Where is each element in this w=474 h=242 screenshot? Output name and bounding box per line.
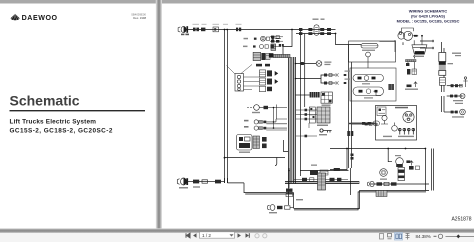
- label y split a: [345, 71, 350, 72]
- connector strip hatched: [269, 53, 290, 57]
- y split upper comps: [324, 73, 346, 77]
- bottom fuse right2: [337, 178, 341, 182]
- aux box pair: [262, 137, 267, 148]
- svg-text:Dec. 1998: Dec. 1998: [133, 16, 146, 20]
- toolbar continuous facing icon: [406, 233, 410, 240]
- distributor top: [380, 28, 423, 52]
- wire starter row: [447, 85, 462, 87]
- wire main top bus: [186, 29, 336, 31]
- engine feed fuses: [362, 121, 379, 126]
- wire bundle bottom band: [285, 181, 360, 184]
- toolbar last page button: [246, 233, 250, 238]
- label mid circle: [324, 62, 331, 66]
- wire key switch feed: [352, 122, 376, 124]
- left feed fuse row1: [270, 36, 283, 39]
- key symbol: [320, 129, 332, 133]
- wire left bus line a: [224, 30, 226, 184]
- connector hatched mid: [253, 136, 260, 149]
- right schematic page: [162, 4, 474, 230]
- bottom chain comps: [368, 181, 397, 186]
- amp fuse row2 right: [320, 32, 331, 35]
- wire bottom chain: [369, 183, 429, 185]
- lamp row 2: [254, 119, 287, 124]
- step box lower: [334, 168, 340, 171]
- toolbar zoom slider track: [446, 235, 474, 238]
- toolbar next page button: [238, 233, 241, 238]
- label relay cluster: [322, 105, 331, 106]
- row4 dashes: [256, 64, 270, 67]
- horn switch row2: [253, 45, 281, 49]
- toolbar zoom reset circle: [438, 234, 442, 238]
- page bottom shadow: [0, 228, 474, 233]
- left bottom chain: [177, 178, 224, 185]
- toolbar rotate left disabled: [255, 234, 259, 238]
- toolbar zoom out dot: [434, 236, 437, 237]
- wire step left drop: [283, 30, 292, 55]
- label spark plug row: [398, 136, 414, 137]
- wire right stub upper: [420, 40, 434, 42]
- svg-text:1 / 2: 1 / 2: [202, 233, 211, 238]
- toolbar prev page button: [193, 233, 196, 238]
- page separator gap: [156, 0, 162, 229]
- flasher relay box: [237, 135, 253, 151]
- wire rear lamp column: [442, 96, 445, 112]
- label backup lamp: [452, 116, 464, 117]
- wire battery drop: [442, 42, 445, 53]
- battery: [439, 53, 446, 76]
- ignition switch hatched: [317, 107, 330, 123]
- label gauge: [380, 179, 387, 180]
- wire central bus line 1: [288, 57, 290, 205]
- wire central bus line 3: [293, 57, 295, 183]
- wire bottom band lines: [285, 182, 359, 184]
- option legend box: [377, 107, 386, 116]
- fuel pump box: [349, 41, 396, 68]
- labels above top fuses: [193, 24, 242, 25]
- svg-text:Lift Trucks Electric System: Lift Trucks Electric System: [10, 119, 97, 126]
- sender unit box: [350, 68, 396, 101]
- junction dots lamp rows: [273, 107, 275, 129]
- connector hatched pair bottom: [376, 191, 387, 197]
- svg-text:84.38%: 84.38%: [416, 234, 431, 239]
- alternator: [403, 111, 414, 122]
- label flasher box: [239, 152, 250, 153]
- right mid branch comps: [365, 123, 377, 127]
- svg-text:DAEWOO: DAEWOO: [22, 14, 58, 22]
- sender small parts: [409, 166, 420, 170]
- label right top: [452, 53, 461, 57]
- wire central bus line 4: [295, 57, 297, 184]
- bottom wires cross: [294, 179, 348, 181]
- fuse F3: [236, 28, 241, 32]
- mid circle component: [301, 61, 322, 67]
- wire right bus lower: [350, 168, 352, 195]
- fuel gauge meter: [380, 169, 388, 177]
- starter circle: [381, 115, 388, 124]
- spark arrow comp: [407, 82, 418, 87]
- fuse F1: [193, 28, 199, 32]
- label lamp rows: [244, 120, 249, 128]
- label bottom-left chain: [269, 212, 277, 213]
- coil hatched bar: [406, 60, 417, 62]
- battery lower block: [440, 78, 446, 86]
- relay K1 hatched: [271, 44, 276, 50]
- fuse F2: [201, 28, 205, 32]
- wire horn to bus: [268, 105, 287, 129]
- label bus bottom: [296, 199, 303, 200]
- toolbar rotate right disabled: [263, 234, 267, 238]
- wire y split stem: [296, 78, 322, 80]
- label fuel pump: [362, 50, 375, 51]
- wire flasher horizontal: [225, 157, 286, 159]
- starter row comps: [451, 84, 463, 87]
- horn switch row1: [254, 36, 281, 41]
- label gnd area: [311, 165, 317, 166]
- amp fuse row1 left: [299, 28, 312, 31]
- wire bottom left chain riser: [225, 140, 289, 183]
- wire buzzer drop: [388, 149, 392, 162]
- wires fan from CN2: [227, 65, 260, 90]
- ignition coil: [412, 45, 427, 54]
- label engine parts: [395, 107, 408, 109]
- key switch boxes: [296, 107, 317, 137]
- relay bank C: [260, 86, 273, 92]
- bottom fuse left: [302, 178, 307, 182]
- label chain bottom: [193, 186, 200, 187]
- svg-text:Schematic: Schematic: [10, 93, 80, 109]
- rear lamp row comps: [450, 94, 465, 99]
- left cover page: [0, 4, 157, 230]
- buzzer: [396, 158, 414, 167]
- wire backup lamp row: [444, 111, 457, 113]
- toolbar facing icon active: [395, 233, 403, 241]
- wire y split lower: [321, 79, 336, 84]
- relay cluster mid: [310, 92, 333, 103]
- wire right mid branch: [352, 123, 379, 125]
- sender box edge connector: [389, 84, 395, 90]
- wire ground bus: [300, 170, 349, 172]
- wire right trunk line: [300, 30, 302, 177]
- spark plugs row: [399, 128, 415, 135]
- wire step lower right: [330, 149, 347, 170]
- horn H1: [247, 105, 268, 111]
- spark plug comps right: [406, 63, 416, 75]
- label spark cluster: [405, 89, 418, 90]
- bottom fuse left2: [310, 178, 314, 182]
- wire right stub lower: [420, 47, 434, 49]
- bottom toolbar: [0, 233, 474, 242]
- wire rear lamp row: [447, 95, 462, 97]
- label horn rows left: [243, 38, 248, 47]
- backup lamp: [451, 109, 466, 115]
- wire battery lower: [442, 75, 445, 92]
- wire bottom right verticals: [426, 149, 434, 191]
- svg-text:GC15S-2, GC18S-2, GC20SC-2: GC15S-2, GC18S-2, GC20SC-2: [10, 128, 113, 135]
- ammeter connector capsule: [314, 25, 319, 36]
- label distributor: [383, 136, 392, 137]
- label CN1: [181, 34, 189, 36]
- right bus fuse stack lower: [351, 154, 354, 160]
- wire lower return run: [244, 183, 294, 209]
- svg-text:MODEL : GC15S, GC18S, GC20SC: MODEL : GC15S, GC18S, GC20SC: [397, 19, 460, 24]
- engine parts box: [376, 106, 417, 141]
- relay bank B: [260, 78, 279, 85]
- label bottom connector: [179, 187, 188, 189]
- label ammeter: [313, 19, 319, 20]
- wire amp drop right: [336, 34, 415, 59]
- amp fuse row2 left: [299, 32, 312, 35]
- daewoo logo shell icon: [11, 14, 20, 20]
- label y split b: [345, 79, 350, 80]
- toolbar first page button: [186, 233, 190, 238]
- y split lower comps: [324, 81, 346, 85]
- left feed fuse row2: [270, 40, 283, 43]
- wire major horizontal: [330, 148, 426, 150]
- fuel sender cylinder: [398, 168, 405, 181]
- wire central bus line 2: [290, 57, 292, 183]
- toolbar page field dropdown: [230, 234, 234, 236]
- wire ground hook: [275, 158, 277, 166]
- connector block CN2: [235, 74, 244, 92]
- fusible link box: [213, 27, 219, 32]
- svg-text:A251878: A251878: [451, 217, 471, 223]
- wire bundle central bus band: [288, 57, 296, 183]
- central bottom connector bar: [318, 173, 326, 190]
- fuse stack on drop: [286, 189, 293, 197]
- wire bottom loop: [294, 191, 429, 210]
- wire relay cluster branch: [296, 94, 310, 96]
- right bus fuse stack upper: [347, 131, 353, 136]
- label horn: [252, 112, 260, 113]
- label amp capsule second: [321, 19, 325, 20]
- lamp row 3: [254, 126, 287, 130]
- label key symbol: [319, 134, 327, 135]
- wire amp row2: [296, 33, 336, 35]
- bottom fuse right: [330, 178, 335, 182]
- relay block row3: [253, 52, 270, 60]
- label buzzer: [395, 155, 401, 156]
- cover title underline: [10, 110, 146, 111]
- wire mid circle branch: [296, 63, 317, 65]
- coil down wires: [408, 62, 415, 69]
- bottom-left chain connector: [268, 205, 294, 211]
- label battery: [448, 63, 454, 64]
- wire left bus line b: [227, 30, 229, 184]
- connector CN1 round: [178, 26, 188, 33]
- toolbar continuous icon: [388, 234, 392, 239]
- labels sender box: [362, 83, 373, 98]
- ground boxes: [310, 170, 328, 175]
- hood pin switch: [463, 77, 467, 87]
- wire y split upper: [321, 75, 336, 79]
- toolbar zoom slider handle: [457, 234, 461, 238]
- toolbar page field: [200, 232, 235, 238]
- relay K2: [279, 44, 284, 47]
- label key switch: [317, 125, 328, 127]
- label rear lamp: [453, 100, 463, 101]
- distributor lower: [392, 123, 398, 132]
- amp fuse row1 right: [320, 28, 331, 31]
- wire fuse drop: [288, 168, 290, 188]
- label coil: [413, 56, 424, 57]
- relay bank A: [260, 70, 279, 77]
- label tail lamp: [455, 103, 463, 104]
- toolbar single page icon: [380, 234, 384, 240]
- wire right bus pair: [349, 45, 352, 169]
- wire key switch drop: [304, 34, 306, 108]
